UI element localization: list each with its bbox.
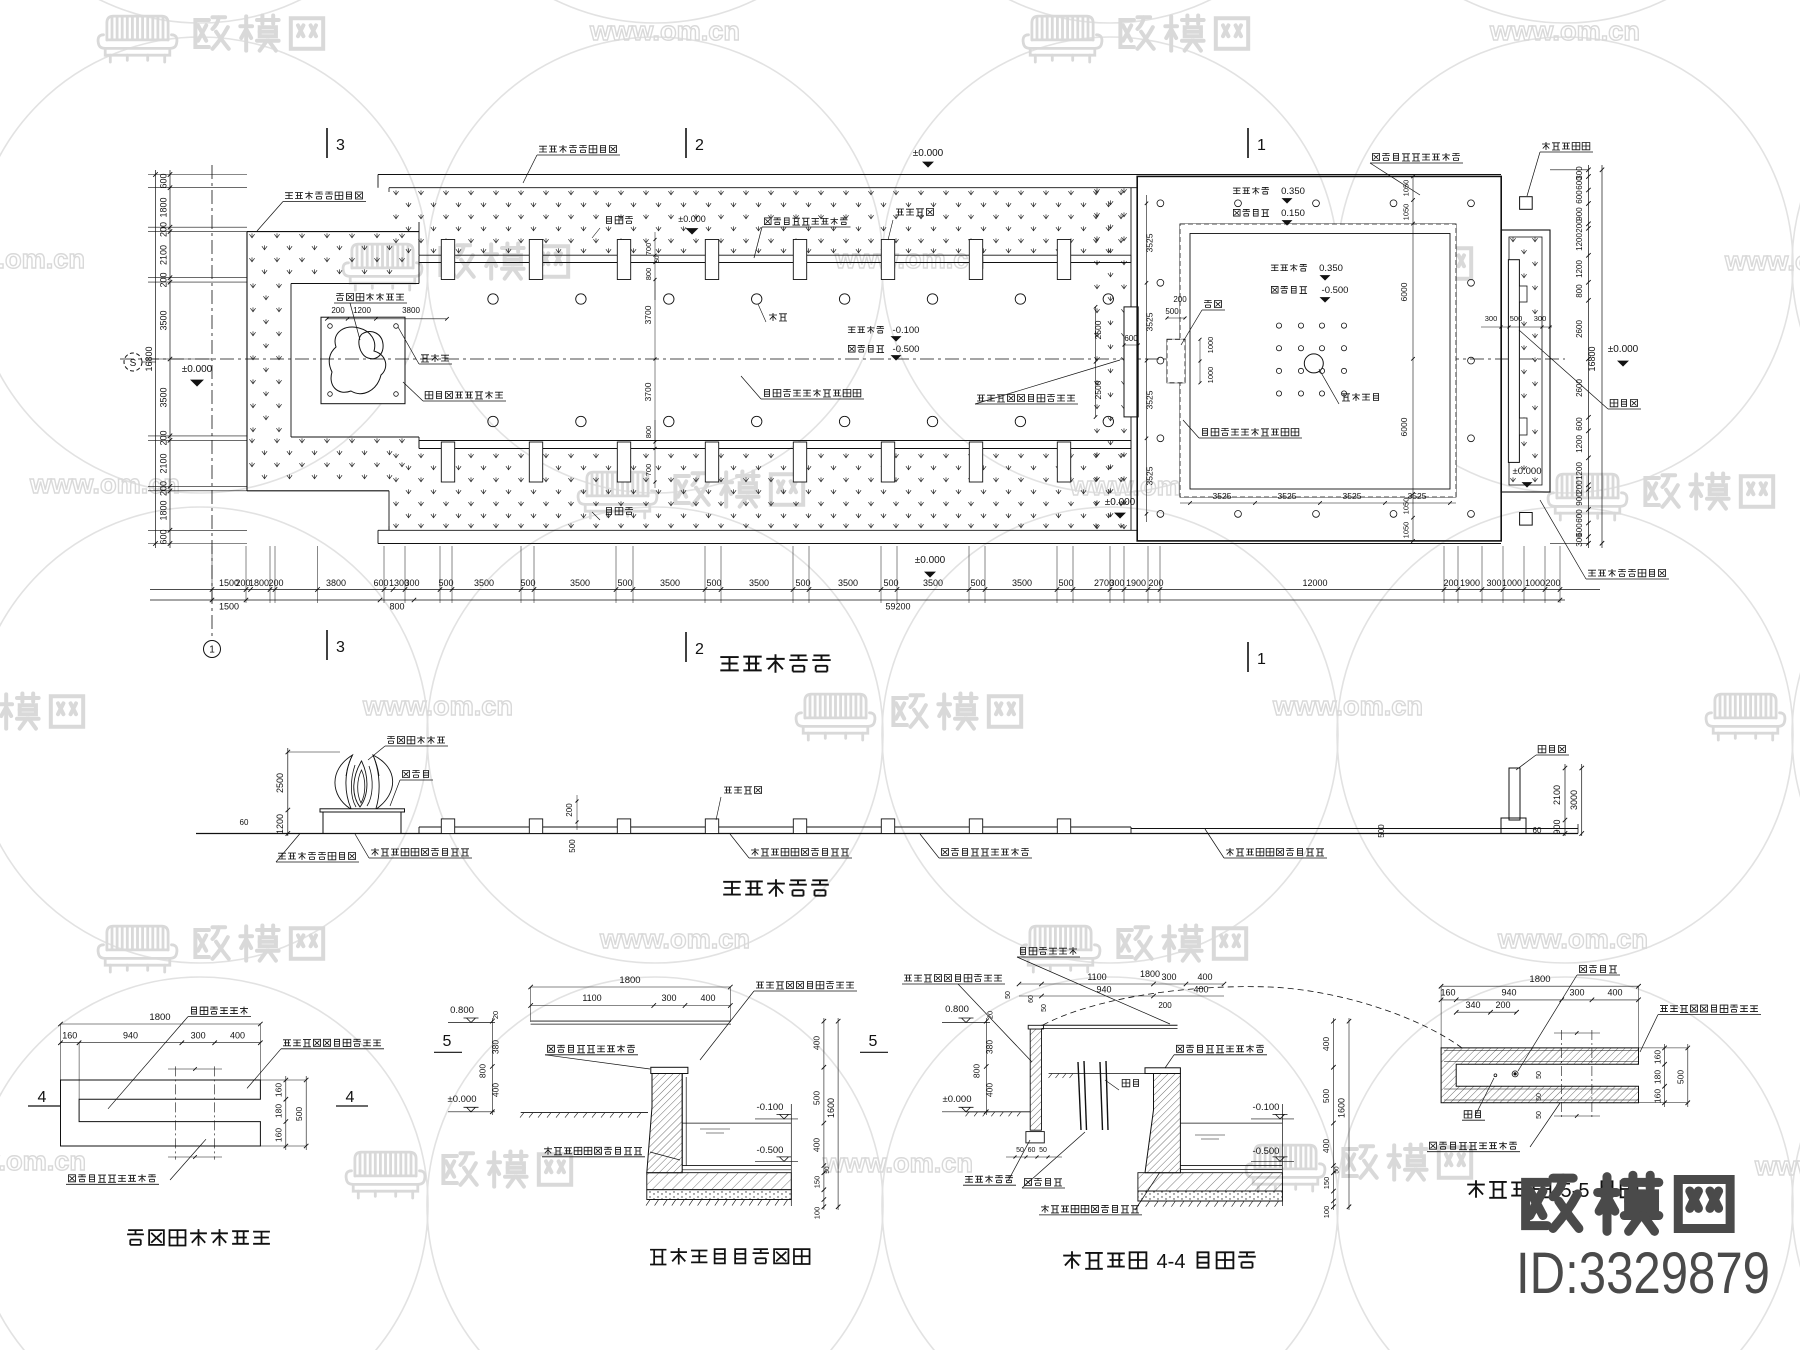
svg-text:400: 400 [1193,985,1208,995]
svg-text:www.om.cn: www.om.cn [0,1146,86,1176]
d4 light dot [1494,1074,1497,1077]
svg-text:www.om.cn: www.om.cn [834,244,985,274]
right pool 1050/6000 dims [1412,176,1414,541]
elevation right stone dims [1564,764,1566,836]
d2 title 吐水矮墙侧立面图 [650,1250,666,1265]
bottom extension lines [211,546,213,603]
d4 labels [1580,966,1587,973]
svg-text:1800: 1800 [159,500,169,520]
svg-text:400: 400 [491,1083,501,1097]
d3 nozzles [1078,1062,1081,1130]
svg-text:800: 800 [644,268,653,281]
svg-text:-0.100: -0.100 [893,325,920,336]
svg-text:600: 600 [1575,417,1584,431]
svg-text:-0.500: -0.500 [893,344,920,355]
300 500 300 stone dims [1481,326,1552,328]
right dim chains [1587,165,1589,548]
svg-text:200: 200 [1443,578,1458,588]
svg-text:1000: 1000 [1525,578,1545,588]
svg-text:www.om.cn: www.om.cn [1754,1151,1800,1181]
svg-text:±0.000: ±0.000 [1105,497,1136,508]
svg-text:1200: 1200 [353,306,371,315]
svg-text:50: 50 [1039,1147,1047,1154]
d4 C section [1441,1048,1638,1103]
d3 ground levels [1049,1073,1145,1075]
svg-text:800: 800 [478,1064,488,1078]
label 投射灯 [421,355,429,362]
svg-text:www.om.cn: www.om.cn [0,244,85,274]
svg-text:200: 200 [159,430,169,445]
svg-text:300: 300 [191,1031,206,1041]
svg-text:±0.000: ±0.000 [678,214,705,224]
plan title 喷泉平面图 [720,657,738,670]
svg-text:160: 160 [274,1128,284,1142]
d3 wall base block [1026,1132,1044,1143]
svg-text:1800: 1800 [249,578,269,588]
svg-text:4: 4 [38,1089,47,1106]
plan: right end block [1501,230,1550,492]
svg-text:1800: 1800 [619,975,640,986]
svg-text:500: 500 [1377,824,1386,838]
svg-text:1200: 1200 [1575,260,1584,278]
svg-text:50: 50 [1536,1111,1543,1119]
svg-text:800: 800 [1575,284,1584,298]
svg-text:300: 300 [661,993,676,1003]
svg-text:S: S [130,358,137,369]
d2 left dims [491,1018,493,1115]
svg-text:500: 500 [520,578,535,588]
svg-text:600: 600 [373,578,388,588]
section mark 1 bottom [1247,642,1249,672]
d3 glass shelf [1042,1024,1178,1026]
label 题字碑 [1610,400,1618,407]
svg-text:300: 300 [1575,533,1584,547]
d2 wall facing lines [681,1074,683,1166]
svg-text:400: 400 [985,1083,995,1097]
d2 wall hatched [647,1074,682,1173]
svg-text:800: 800 [389,602,404,612]
svg-text:4-4: 4-4 [1157,1251,1186,1273]
svg-text:3500: 3500 [838,578,858,588]
svg-text:300: 300 [1534,314,1547,323]
d3 ground hatch bottom [1138,1200,1283,1202]
elevation right coping band [1131,828,1578,830]
svg-text:200: 200 [1173,295,1187,304]
svg-text:6000: 6000 [1399,282,1409,301]
svg-text:100: 100 [1322,1206,1331,1219]
d2 water [682,1122,791,1124]
svg-text:1900: 1900 [1460,578,1480,588]
svg-text:400: 400 [1321,1139,1331,1153]
d1 centerlines [175,1066,177,1159]
axis bubble S dashed [124,353,142,371]
svg-text:380: 380 [491,1040,501,1054]
d4 top dims [1441,985,1638,987]
d2 bedding hatched [647,1173,792,1190]
elevation 200 dim [576,795,578,830]
svg-text:700: 700 [644,243,653,256]
right pool inner 3525 dims vertical [1146,195,1148,522]
d2 pool floor [682,1165,791,1167]
svg-text:3525: 3525 [1278,491,1297,501]
elevation ground line [196,833,1578,835]
svg-text:200: 200 [268,578,283,588]
svg-text:200: 200 [1545,578,1560,588]
svg-text:300: 300 [1109,578,1124,588]
plan: sculpture platform [321,317,405,404]
svg-text:500: 500 [795,578,810,588]
svg-text:2600: 2600 [1575,320,1584,338]
elevation low wall band [419,826,1131,828]
svg-text:3500: 3500 [570,578,590,588]
svg-text:400: 400 [1321,1037,1331,1051]
d3 concrete [1138,1191,1283,1201]
d3 top dims [1019,983,1224,985]
section mark 2 bottom [685,632,687,662]
svg-text:600: 600 [159,529,169,544]
svg-text:800: 800 [644,426,653,439]
svg-text:50: 50 [655,255,661,262]
svg-text:3: 3 [336,137,345,154]
svg-text:1100: 1100 [1087,972,1106,982]
svg-text:400: 400 [812,1138,822,1152]
svg-text:50: 50 [824,1166,831,1174]
svg-text:160: 160 [1440,988,1455,998]
svg-text:1500: 1500 [219,602,239,612]
svg-text:400: 400 [700,993,715,1003]
weir 600 dims [1095,307,1097,417]
svg-text:5: 5 [443,1033,452,1050]
label 山西黑磨光板台面 [425,392,433,399]
d3 water [1180,1122,1282,1124]
elevation title 喷泉立面图 [723,882,741,895]
d2 ground hatch [521,1112,648,1114]
svg-text:50: 50 [1536,1093,1543,1101]
svg-text:500: 500 [438,578,453,588]
svg-text:1200: 1200 [275,814,285,834]
svg-text:www.om.cn: www.om.cn [599,924,750,954]
svg-text:300: 300 [1161,972,1176,982]
d2 top dims [531,986,731,988]
d4 liner lines [1444,1050,1639,1052]
svg-text:600: 600 [1124,334,1138,343]
svg-text:3500: 3500 [749,578,769,588]
wall 700/800 dims top [654,232,656,300]
d3 thin wall [1030,1029,1041,1130]
svg-text:1800: 1800 [1529,974,1550,985]
plan: wall piers top row [441,240,454,280]
plan: pump pit dashed [1167,339,1185,383]
svg-text:6000: 6000 [1399,417,1409,436]
svg-text:2100: 2100 [159,245,169,265]
label 50厚山西黑磨光压顶 band [764,218,771,225]
svg-text:2100: 2100 [1552,785,1562,805]
plan: inscription stone 题字碑 [1508,260,1519,463]
svg-text:1900: 1900 [1126,578,1146,588]
svg-text:200: 200 [1158,1001,1172,1010]
svg-text:2500: 2500 [1093,320,1103,339]
svg-text:20: 20 [491,1011,500,1019]
svg-text:3700: 3700 [643,382,653,401]
svg-text:800: 800 [972,1064,982,1078]
svg-text:60: 60 [1028,995,1035,1003]
svg-text:50: 50 [1041,1004,1048,1012]
label 题字碑 elevation [1538,746,1546,753]
label 涌泉 [769,313,777,321]
svg-text:www.om.cn: www.om.cn [1497,924,1648,954]
svg-text:2500: 2500 [1093,380,1103,399]
d3 left dims [985,1018,987,1115]
svg-text:180: 180 [1652,1070,1662,1084]
svg-text:www.om.cn: www.om.cn [362,691,513,721]
section mark 3 top [326,128,328,158]
plan: central big jet 水柱喷泉 [1304,354,1323,373]
svg-text:200: 200 [159,481,169,496]
svg-text:3800: 3800 [402,306,420,315]
right pool level labels mid [1271,265,1279,271]
svg-text:59200: 59200 [885,602,910,612]
bottom dim chain [150,589,1600,591]
axis bubble 1 [204,641,221,658]
svg-text:500: 500 [1058,578,1073,588]
svg-text:1050: 1050 [1402,522,1411,539]
plan: center axis dash-dot [120,358,1565,360]
label 泵坑 [1204,301,1212,308]
svg-text:900: 900 [1552,819,1562,834]
d3 right dims [1332,1018,1334,1210]
svg-text:50: 50 [1536,1071,1543,1079]
plan: left block outline [246,232,248,491]
svg-text:200: 200 [1148,578,1163,588]
svg-text:3000: 3000 [1569,790,1579,810]
label 20厚山西黑磨光板池底 pool [1203,429,1208,436]
svg-text:3500: 3500 [1012,578,1032,588]
svg-text:60: 60 [1533,826,1542,835]
svg-text:±0.000: ±0.000 [915,555,946,566]
svg-text:900: 900 [1575,207,1584,221]
svg-text:60: 60 [1028,1147,1036,1154]
svg-text:180: 180 [274,1104,284,1118]
svg-text:50: 50 [1005,991,1012,999]
svg-text:www.om.cn: www.om.cn [1272,691,1423,721]
svg-text:3525: 3525 [1343,491,1362,501]
svg-text:1200: 1200 [1575,462,1584,480]
svg-text:1100: 1100 [582,993,601,1003]
d4 title 吐水矮墙5-5剖面图 [1467,1180,1485,1198]
svg-text:0.800: 0.800 [450,1005,474,1016]
svg-text:600: 600 [1575,190,1584,204]
svg-text:1050: 1050 [1402,204,1411,221]
svg-text:www.om.cn: www.om.cn [29,469,180,499]
label 吐水矮墙 [896,209,904,215]
big omoclub logo [1526,1178,1579,1228]
svg-text:www.om.cn: www.om.cn [589,16,740,46]
d3 title 吐水矮墙4-4剖面图 [1063,1251,1081,1269]
d3 main wall [1145,1074,1180,1173]
svg-text:160: 160 [62,1031,77,1041]
plan: right pool perimeter jets [1157,200,1164,207]
svg-text:100: 100 [813,1207,822,1220]
svg-text:3525: 3525 [1145,466,1155,485]
svg-text:-0.500: -0.500 [757,1145,784,1156]
svg-text:160: 160 [1652,1089,1662,1103]
right pool dashed square [1180,224,1456,497]
svg-text:300: 300 [1486,578,1501,588]
svg-text:500: 500 [1165,307,1179,316]
svg-text:4: 4 [346,1089,355,1106]
svg-text:500: 500 [883,578,898,588]
svg-text:1000: 1000 [1206,337,1215,354]
svg-text:3525: 3525 [1145,390,1155,409]
platform mini dims [327,318,447,320]
svg-text:200: 200 [1575,480,1584,494]
svg-text:150: 150 [813,1176,822,1189]
svg-text:0.150: 0.150 [1281,208,1305,219]
svg-text:700: 700 [644,464,653,477]
d3 bedding [1138,1173,1283,1191]
svg-text:www.om.cn: www.om.cn [1489,16,1640,46]
svg-text:1050: 1050 [1402,498,1411,515]
svg-text:500: 500 [706,578,721,588]
d2 top slab line [531,1020,731,1022]
svg-text:±0.000: ±0.000 [448,1094,477,1105]
d3 8厚玻璃盖板 label [1021,948,1026,955]
label 花岗石石灯 [1542,142,1550,150]
svg-text:16800: 16800 [1587,346,1597,371]
svg-text:2500: 2500 [275,773,285,793]
svg-text:940: 940 [123,1031,138,1041]
right pool bottom 3525 dims [1180,502,1456,504]
d2 concrete layer [647,1190,792,1200]
svg-text:1: 1 [1257,651,1266,668]
svg-text:1800: 1800 [1140,969,1160,979]
svg-text:1: 1 [1257,137,1266,154]
svg-text:1000: 1000 [1206,367,1215,384]
svg-text:300: 300 [404,578,419,588]
svg-text:0.800: 0.800 [945,1004,969,1015]
plan: bottom coping [389,529,1137,531]
svg-text:160: 160 [1652,1050,1662,1064]
svg-text:200: 200 [1575,219,1584,233]
svg-text:5: 5 [869,1033,878,1050]
d1 labels [192,1007,197,1014]
svg-text:3500: 3500 [474,578,494,588]
d4 right dims [1664,1044,1666,1107]
svg-text:340: 340 [1465,1000,1480,1010]
svg-text:www.om.cn: www.om.cn [1724,246,1800,276]
svg-text:0.350: 0.350 [1281,186,1305,197]
svg-text:2100: 2100 [159,453,169,473]
d2 wall cap [651,1067,688,1073]
svg-text:1600: 1600 [826,1098,836,1118]
svg-text:3500: 3500 [923,578,943,588]
svg-text:1: 1 [209,645,215,656]
label 列植槽 bottom [607,508,612,515]
svg-text:0.350: 0.350 [1319,263,1343,274]
d2 right dims [823,1018,825,1210]
svg-text:www.om.cn: www.om.cn [822,1148,973,1178]
svg-text:3700: 3700 [643,305,653,324]
d4 nozzle [1512,1071,1518,1077]
svg-text:500: 500 [294,1107,304,1121]
svg-text:940: 940 [1501,988,1516,998]
wall 800/700 dims bottom [654,420,656,488]
svg-text:400: 400 [812,1036,822,1050]
svg-text:200: 200 [159,272,169,287]
svg-text:200: 200 [331,306,345,315]
right pool level labels top [1233,188,1241,194]
label 大地之花雕塑台 [336,294,344,301]
svg-text:1800: 1800 [159,197,169,217]
d1 C-wall outline [61,1080,261,1146]
svg-text:±0.000: ±0.000 [1608,344,1639,355]
plan: spouting low wall top (50厚压顶) [419,254,1131,256]
svg-text:3: 3 [336,639,345,656]
plan: top coping (70厚山西黑磨光板) [378,174,1501,176]
watermark circles [0,0,428,23]
left dim chains [148,174,247,176]
svg-text:200: 200 [565,803,574,817]
label 70厚山西黑磨光板 top-mid [539,146,547,152]
d3 50/60/50 dims [1006,1156,1062,1158]
svg-text:500: 500 [970,578,985,588]
plan: granite lamps 花岗石石灯 [1520,197,1533,210]
svg-text:300: 300 [1485,314,1498,323]
svg-text:-0.500: -0.500 [1253,1146,1280,1157]
label 50厚山西黑磨光压顶 [1373,154,1380,161]
elevation inscription stone [1509,768,1520,820]
svg-text:±0.000: ±0.000 [943,1094,972,1105]
svg-text:600: 600 [1575,509,1584,523]
plan: 80厚 weir board [1124,307,1138,417]
svg-text:400: 400 [1607,988,1622,998]
svg-text:3500: 3500 [660,578,680,588]
svg-text:50: 50 [1334,1166,1341,1174]
svg-text:150: 150 [1322,1177,1331,1190]
d3 spray dashed trajectory [1043,987,1462,1048]
label 水柱喷泉 [1342,394,1350,401]
plan: wall piers bottom row [441,442,454,482]
label 列植槽 top [607,217,612,224]
svg-text:500: 500 [568,839,577,853]
svg-text:3500: 3500 [159,387,169,407]
svg-text:1200: 1200 [1575,435,1584,453]
svg-text:160: 160 [274,1083,284,1097]
svg-text:-0.500: -0.500 [1322,285,1349,296]
svg-text:-0.100: -0.100 [757,1102,784,1113]
svg-text:1800: 1800 [149,1012,170,1023]
svg-text:1000: 1000 [1502,578,1522,588]
plan: spouting low wall bottom [419,440,1131,442]
plan: fountain jets in basin [488,294,498,304]
plan: paving v-marks top band [393,190,398,194]
svg-text:1050: 1050 [1402,180,1411,197]
elevation dims left [287,748,289,836]
d4 centerlines [1561,1030,1563,1119]
svg-text:ID:3329879: ID:3329879 [1516,1241,1770,1306]
d1 title 吐水矮墙平面图 [127,1230,144,1245]
svg-text:400: 400 [230,1031,245,1041]
elevation labels [387,737,395,744]
elevation sculpture platform [320,809,405,812]
d2 labels [548,1045,555,1052]
plan: basin end wall right [1130,255,1132,262]
svg-text:3525: 3525 [1213,491,1232,501]
svg-text:12000: 12000 [1302,578,1327,588]
section mark 1 top [1247,128,1249,158]
svg-text:200: 200 [1495,1000,1510,1010]
svg-text:500: 500 [812,1091,822,1105]
